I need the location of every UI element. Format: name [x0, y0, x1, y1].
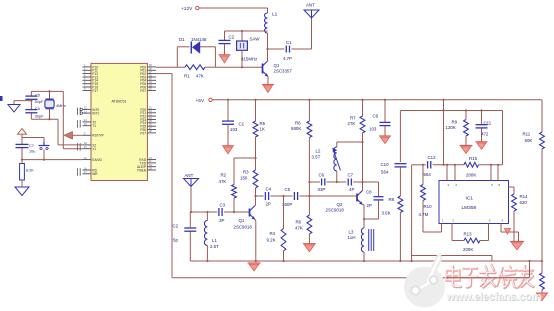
- capacitor C9 103: [384, 100, 386, 122]
- resistor R9 120K: [465, 111, 467, 120]
- svg-text:1N4148: 1N4148: [191, 37, 207, 42]
- wire IC pin to ground: [501, 231, 519, 233]
- wire C10/R8 vertical: [399, 111, 401, 163]
- svg-text:C6: C6: [35, 107, 40, 111]
- resistor R13 200K feedback: [451, 232, 453, 241]
- op-amp IC1 LM358: [439, 181, 509, 224]
- ground below C2: [219, 54, 231, 56]
- svg-text:R11: R11: [523, 132, 531, 137]
- svg-text:www.elecfans.com: www.elecfans.com: [445, 291, 541, 303]
- wire L3 to rail: [363, 252, 365, 261]
- wire R6 chain down: [308, 138, 310, 216]
- svg-text:+12V: +12V: [181, 6, 193, 12]
- resistor R7 27K: [362, 100, 364, 116]
- wire rails over watermark: [446, 260, 542, 262]
- wire C4 row y196: [256, 195, 264, 197]
- svg-text:200K: 200K: [463, 247, 473, 252]
- svg-text:AT89C51: AT89C51: [112, 100, 127, 104]
- svg-text:2P: 2P: [367, 203, 372, 208]
- capacitor C12 564: [427, 161, 429, 169]
- wire reset to chip: [22, 159, 83, 161]
- svg-text:C8: C8: [366, 190, 372, 195]
- RST red arrow: [64, 132, 73, 140]
- wire filter box top: [400, 110, 502, 112]
- svg-text:D1: D1: [179, 37, 185, 42]
- resistor R11 50K: [541, 100, 543, 132]
- resistor R16 8.2K box style: [20, 164, 25, 181]
- svg-text:C7: C7: [348, 173, 354, 178]
- wire +12V supply to L1: [199, 7, 268, 9]
- wire D1/R1 parallel box: [176, 47, 178, 67]
- svg-text:2SC9018: 2SC9018: [234, 225, 253, 230]
- capacitor C1 4.7P: [268, 48, 285, 50]
- capacitor C5 360P: [293, 192, 295, 200]
- svg-text:L3: L3: [349, 230, 354, 235]
- ground IC output: [510, 241, 524, 243]
- resistor R10 4.7M: [422, 165, 424, 185]
- svg-text:Q2: Q2: [337, 202, 343, 207]
- svg-text:C5: C5: [35, 94, 40, 98]
- svg-text:680K: 680K: [291, 126, 301, 131]
- resistor R14 620: [509, 186, 515, 188]
- ground below Q1b emitter: [248, 262, 261, 264]
- wire L1 to Q1 collector: [267, 33, 269, 62]
- svg-text:Q1: Q1: [274, 63, 280, 68]
- svg-text:4P: 4P: [349, 187, 354, 192]
- svg-text:2P: 2P: [266, 202, 271, 207]
- inductor L1b 2.6T: [206, 212, 208, 221]
- svg-text:R13: R13: [464, 232, 473, 237]
- capacitor C8 2P bridge: [363, 181, 379, 183]
- svg-text:27K: 27K: [348, 121, 356, 126]
- wire P0.0 to R1: [156, 66, 185, 68]
- svg-text:564: 564: [424, 172, 432, 177]
- svg-text:5p: 5p: [173, 238, 178, 243]
- svg-text:C2: C2: [173, 224, 179, 229]
- resistor R15 200K: [464, 162, 479, 167]
- inductor L3 1uH with core: [361, 228, 364, 252]
- svg-text:R5: R5: [260, 121, 266, 126]
- svg-text:C5: C5: [285, 187, 291, 192]
- svg-text:+5V: +5V: [196, 98, 205, 104]
- svg-text:4.7M: 4.7M: [419, 212, 429, 217]
- svg-text:1uH: 1uH: [348, 235, 356, 240]
- IC1 bottom pin wires: [441, 224, 443, 233]
- wire crystal top: [31, 90, 63, 92]
- svg-text:R9: R9: [452, 120, 458, 125]
- svg-text:R4: R4: [270, 231, 276, 236]
- svg-text:564: 564: [381, 170, 389, 175]
- capacitor C10 564: [395, 163, 407, 165]
- resistor R12 (right leg): [540, 273, 545, 290]
- svg-text:L1: L1: [212, 238, 217, 243]
- svg-text:P17: P17: [92, 89, 98, 93]
- resistor R4 9.2K: [283, 196, 285, 229]
- watermark text highlight: [446, 264, 533, 287]
- svg-text:3.5T: 3.5T: [312, 155, 321, 160]
- svg-text:C9: C9: [373, 114, 379, 119]
- svg-text:Q1: Q1: [239, 218, 245, 223]
- wire rail branch to input row: [443, 100, 445, 165]
- svg-text:C1: C1: [286, 40, 292, 45]
- small red arrow at IC pin: [505, 229, 511, 235]
- inductor L1 (RF choke): [267, 8, 269, 13]
- watermark logo circle: [404, 258, 445, 308]
- svg-text:C10: C10: [381, 162, 390, 167]
- svg-text:IC1: IC1: [466, 196, 474, 202]
- svg-text:2SC9018: 2SC9018: [326, 208, 345, 213]
- wire Q2 emitter down: [363, 205, 365, 228]
- wire crystal bottom: [31, 118, 58, 120]
- wire top node (C2/Y1 to collector): [225, 30, 268, 32]
- watermark text 电子发烧友 (stylized): [447, 265, 534, 288]
- svg-text:R6: R6: [295, 121, 301, 126]
- wire R1 to Q1 base: [215, 66, 262, 68]
- wire input row to C12: [411, 165, 413, 261]
- svg-text:R15: R15: [469, 156, 478, 161]
- svg-text:8.2K: 8.2K: [26, 169, 34, 173]
- svg-text:3.6K: 3.6K: [382, 211, 391, 216]
- svg-text:R2: R2: [221, 173, 227, 178]
- transistor Q1b 2SC9018: [249, 209, 251, 217]
- svg-text:C12: C12: [428, 155, 437, 160]
- svg-text:R3: R3: [243, 170, 249, 175]
- ground below R6b: [303, 243, 316, 245]
- resistor R2 47K: [233, 158, 235, 185]
- ground below C9: [379, 135, 391, 137]
- capacitor C1b 103 (decoupling): [227, 100, 229, 121]
- svg-text:4.7P: 4.7P: [283, 56, 292, 61]
- wire oscillator row y212: [191, 211, 217, 213]
- svg-text:P27: P27: [140, 131, 146, 135]
- capacitor C2: [224, 31, 226, 40]
- svg-text:INT1: INT1: [92, 112, 99, 116]
- svg-text:33P: 33P: [318, 187, 326, 192]
- svg-text:50K: 50K: [525, 138, 533, 143]
- resistor R8 3.6K: [398, 196, 403, 213]
- svg-text:4MHz: 4MHz: [56, 104, 66, 108]
- svg-text:X1: X1: [92, 147, 96, 151]
- svg-text:10u: 10u: [29, 150, 35, 154]
- svg-text:103: 103: [369, 127, 377, 132]
- wire oscillator row y182: [309, 181, 320, 183]
- svg-text:3P: 3P: [219, 218, 224, 223]
- ground below C1b: [222, 145, 234, 147]
- inductor L2 3.5T variable: [337, 141, 363, 143]
- svg-text:2.6T: 2.6T: [210, 244, 219, 249]
- switch S1 reset: [22, 137, 44, 139]
- power arrow reset: [18, 129, 27, 135]
- microcontroller U1 AT89C51: [91, 63, 147, 180]
- svg-text:C4: C4: [266, 187, 272, 192]
- svg-text:T1: T1: [92, 124, 96, 128]
- capacitor C7 4P: [347, 179, 349, 186]
- resistor R6b 47K: [307, 215, 312, 234]
- svg-text:PSEN: PSEN: [137, 168, 146, 172]
- capacitor C2b 5p: [189, 212, 191, 227]
- svg-text:C11: C11: [484, 121, 492, 126]
- svg-text:P07: P07: [140, 89, 146, 93]
- diode D1 1N4148: [177, 46, 189, 48]
- svg-text:L1: L1: [272, 12, 278, 18]
- capacitor C4 2P: [264, 192, 266, 200]
- svg-text:315MHz: 315MHz: [241, 57, 257, 62]
- wire R10 to IC pin: [423, 231, 442, 233]
- capacitor C16 10u: [16, 143, 29, 145]
- resistor R1 47K: [185, 65, 205, 70]
- resistor R6 680K: [308, 100, 310, 121]
- ground below Q1: [262, 84, 274, 86]
- capacitor C14 30pF: [30, 91, 32, 95]
- svg-text:2SC3357: 2SC3357: [274, 69, 293, 74]
- crystal Y2 4MHz: [49, 91, 51, 100]
- svg-text:EA/VD: EA/VD: [92, 158, 102, 162]
- wire inner bottom segment: [412, 255, 492, 257]
- svg-text:C6: C6: [319, 173, 325, 178]
- chip right pins: [147, 66, 156, 68]
- svg-text:30pF: 30pF: [35, 115, 44, 119]
- resistor R5 1K: [255, 100, 257, 121]
- svg-text:R6: R6: [296, 220, 302, 225]
- resistor R3 150: [253, 170, 258, 188]
- svg-text:R7: R7: [350, 116, 356, 121]
- ground below C11: [476, 141, 488, 143]
- chip left pins: [83, 66, 92, 68]
- svg-text:150: 150: [240, 176, 248, 181]
- wire R5 to R3: [255, 137, 257, 170]
- svg-text:SAW: SAW: [250, 37, 261, 42]
- svg-text:47K: 47K: [196, 74, 204, 79]
- wire R7 to Q2 collector: [362, 133, 364, 191]
- ground crystal block: [8, 105, 20, 113]
- wire P0.2 to bus: [156, 73, 172, 75]
- svg-text:L2: L2: [316, 149, 321, 154]
- wire to X1 pin: [62, 91, 64, 148]
- wire Q1b emitter to rail: [255, 221, 257, 261]
- svg-text:472: 472: [481, 132, 489, 137]
- svg-text:R10: R10: [424, 204, 433, 209]
- wire bottom rail: [190, 260, 542, 262]
- svg-text:120K: 120K: [446, 125, 456, 130]
- capacitor C3 3P: [218, 208, 220, 216]
- wire to ground left: [14, 100, 31, 102]
- svg-text:R8: R8: [389, 197, 395, 202]
- ground below R9: [460, 145, 473, 147]
- svg-text:R1: R1: [184, 74, 190, 79]
- INT pin bubbles: [80, 108, 82, 110]
- wire to X2 pin: [57, 119, 59, 145]
- svg-text:30pF: 30pF: [35, 100, 44, 104]
- svg-text:C1: C1: [239, 122, 245, 127]
- svg-text:ANT: ANT: [306, 3, 315, 8]
- wire to R2 top: [234, 157, 256, 159]
- IC1 top pin wires: [446, 165, 448, 181]
- svg-text:R14: R14: [520, 194, 529, 199]
- svg-text:ANT: ANT: [185, 173, 194, 178]
- wire outer bottom rail: [172, 277, 530, 279]
- pin tick marks: [77, 108, 79, 112]
- wire +5V rail: [212, 99, 542, 101]
- svg-text:47K: 47K: [295, 226, 303, 231]
- wire Q1 emitter to ground: [267, 77, 269, 85]
- svg-text:200K: 200K: [466, 173, 476, 178]
- antenna ANT (transmit): [311, 18, 313, 49]
- svg-text:9.2K: 9.2K: [267, 238, 276, 243]
- transistor Q2 2SC9018: [356, 194, 358, 202]
- svg-text:LM358: LM358: [462, 205, 477, 211]
- capacitor C6 33P: [321, 179, 323, 186]
- svg-text:RST/VP: RST/VP: [92, 134, 104, 138]
- svg-text:1K: 1K: [260, 127, 265, 132]
- transistor Q1 2SC3357: [262, 64, 264, 74]
- svg-text:C3: C3: [220, 203, 226, 208]
- svg-text:C7: C7: [29, 144, 34, 148]
- red arrow port bottom right: [537, 293, 548, 301]
- crystal Y1 SAW 315MHz: [241, 31, 243, 41]
- svg-text:103: 103: [230, 127, 238, 132]
- capacitor C15 30pF: [25, 109, 37, 111]
- svg-text:C2: C2: [229, 35, 235, 40]
- capacitor C11 472: [481, 111, 483, 125]
- edge mark: [0, 96, 3, 101]
- svg-text:WR: WR: [92, 172, 98, 176]
- svg-text:47K: 47K: [219, 179, 227, 184]
- ground reset block: [15, 187, 29, 196]
- svg-text:620: 620: [520, 200, 528, 205]
